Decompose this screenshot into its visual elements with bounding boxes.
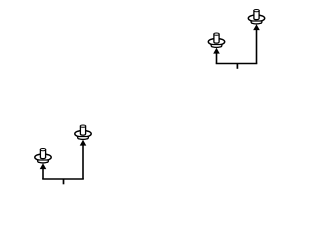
junction stub on bus (bottom-left group) bbox=[63, 179, 65, 184]
pushpin symbol P4 (bottom-left group, right) bbox=[75, 125, 91, 146]
pushpin symbol P2 (top-right group, right) bbox=[248, 9, 264, 30]
horizontal bus wire (bottom-left group) bbox=[42, 178, 84, 180]
wire from P3 arrow down to bus (bottom-left group) bbox=[42, 168, 44, 180]
wire from P4 arrow down to bus (bottom-left group) bbox=[82, 144, 84, 179]
horizontal bus wire (top-right group) bbox=[216, 63, 258, 65]
wire from P1 arrow down to bus (top-right group) bbox=[216, 52, 218, 64]
pushpin symbol P1 (top-right group, left) bbox=[208, 33, 224, 54]
junction stub on bus (top-right group) bbox=[236, 64, 238, 69]
pushpin symbol P3 (bottom-left group, left) bbox=[35, 148, 51, 169]
wire from P2 arrow down to bus (top-right group) bbox=[256, 29, 258, 64]
